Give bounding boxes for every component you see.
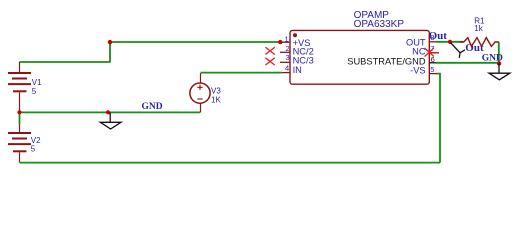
svg-text:5: 5: [430, 65, 434, 74]
svg-text:NC: NC: [412, 47, 426, 57]
svg-text:OPA633KP: OPA633KP: [354, 19, 405, 30]
source V3: [190, 73, 210, 113]
svg-text:Out: Out: [465, 42, 484, 54]
wire V1 top horizontal: [20, 61, 111, 63]
svg-text:IN: IN: [293, 65, 302, 75]
wire top rail to pin1: [110, 41, 280, 43]
ground GND right: [489, 64, 510, 80]
wire middle rail to V3: [20, 111, 201, 113]
wire pin8 to R1: [436, 41, 463, 43]
wire R1 to GND node: [498, 42, 500, 63]
node junction dot between V1 V2: [17, 110, 21, 114]
no-connect X pin 3: [265, 58, 274, 65]
node Out junction dot: [448, 40, 452, 44]
svg-text:1k: 1k: [474, 24, 483, 33]
wire right vertical to pin5: [437, 74, 441, 163]
battery V1: [8, 62, 31, 112]
ground GND left: [100, 113, 121, 130]
pin 1 stub: [281, 41, 290, 43]
node GND junction dot: [106, 110, 110, 114]
pin 6 stub: [430, 62, 438, 64]
wire pin6 to GND node: [436, 62, 499, 64]
svg-text:GND: GND: [482, 54, 503, 64]
voltage pin probe arrow Out: [451, 43, 466, 58]
pin1 marker dot: [293, 33, 297, 37]
wire bottom rail: [20, 162, 441, 164]
svg-text:V1: V1: [32, 78, 42, 87]
svg-text:NC/3: NC/3: [293, 56, 314, 66]
resistor R1: [460, 38, 499, 47]
pin 8 stub: [430, 41, 438, 43]
node pin1 junction dot: [278, 40, 282, 44]
pin 7 stub: [430, 52, 440, 54]
pin 4 stub: [282, 72, 290, 74]
svg-text:3: 3: [286, 53, 290, 62]
pin 2 stub: [280, 51, 290, 53]
no-connect X pin 2: [265, 47, 274, 54]
svg-text:5: 5: [32, 87, 37, 96]
svg-text:1: 1: [285, 35, 289, 44]
wire V2 top: [19, 112, 21, 124]
node corner dot top rail: [108, 40, 112, 44]
svg-text:6: 6: [431, 55, 435, 64]
wire vertical up to top rail: [109, 42, 111, 63]
wire V3 to pin4 IN: [201, 72, 283, 74]
svg-text:4: 4: [285, 64, 289, 73]
svg-text:1K: 1K: [211, 95, 221, 104]
svg-text:-VS: -VS: [410, 65, 426, 75]
svg-text:5: 5: [31, 145, 36, 154]
svg-text:2: 2: [286, 44, 290, 53]
pin 3 stub: [280, 61, 290, 63]
node GND right junction dot: [497, 61, 501, 65]
svg-text:8: 8: [430, 33, 434, 42]
svg-text:GND: GND: [142, 102, 163, 112]
op-amp U1 OPA633KP box: [290, 30, 429, 84]
pin 5 stub: [430, 73, 438, 75]
no-connect X pin 7: [425, 48, 434, 57]
battery V2: [8, 125, 31, 163]
